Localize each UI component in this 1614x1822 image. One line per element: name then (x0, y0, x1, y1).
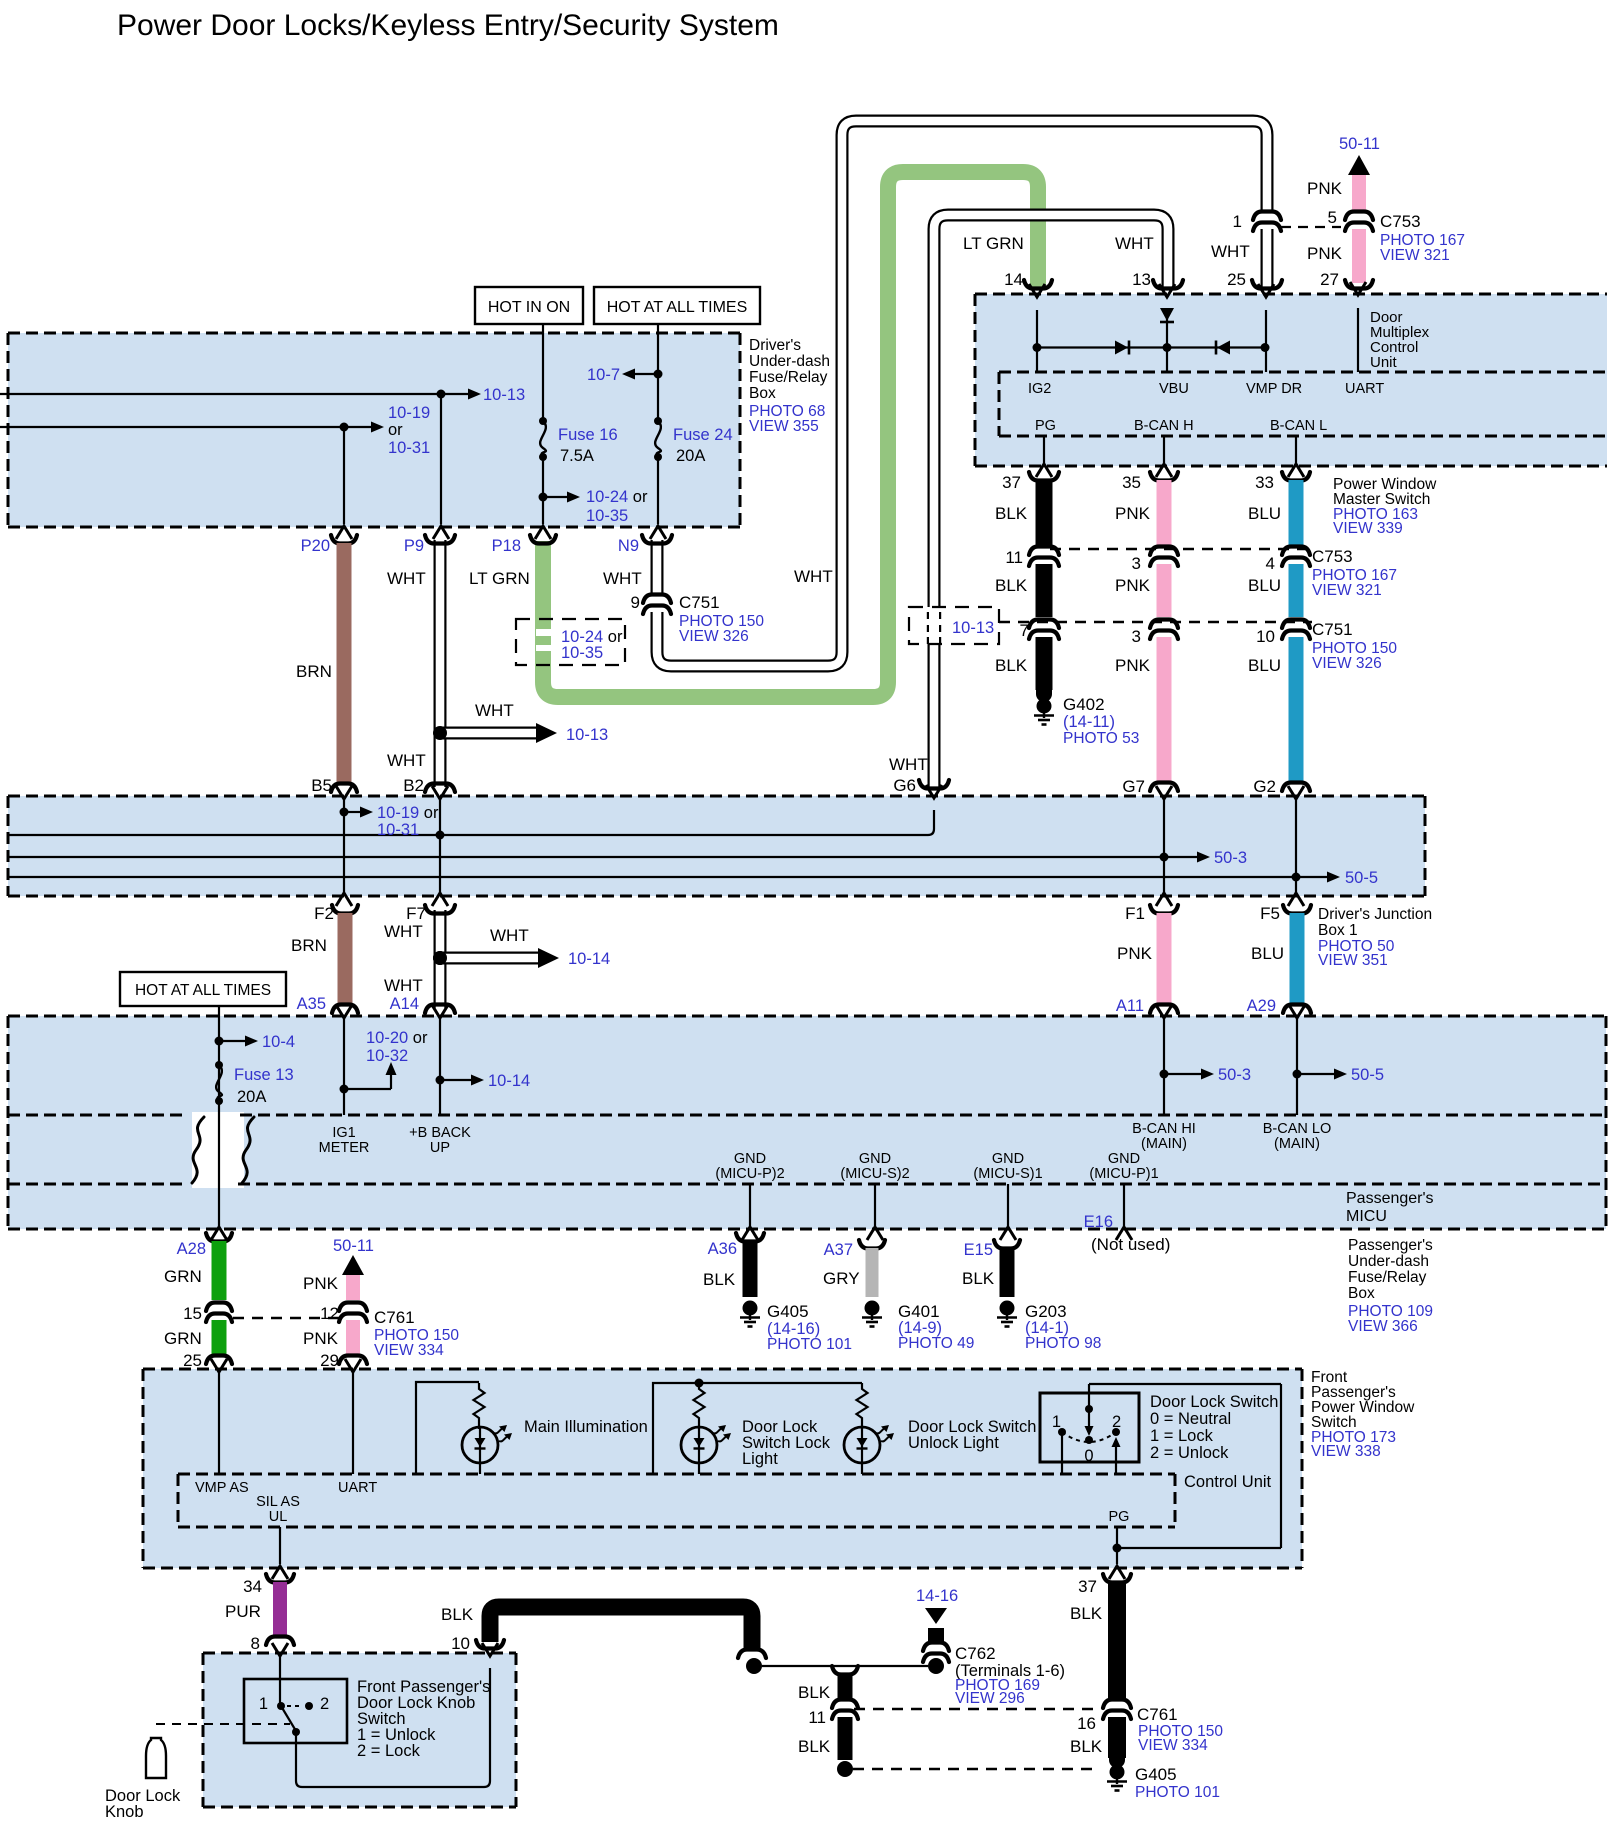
svg-text:34: 34 (243, 1577, 262, 1596)
svg-text:10-14: 10-14 (568, 950, 610, 968)
svg-text:BLU: BLU (1248, 576, 1281, 595)
svg-text:BLU: BLU (1248, 504, 1281, 523)
svg-text:C751: C751 (679, 593, 720, 612)
svg-text:GRN: GRN (164, 1267, 202, 1286)
svg-text:F7: F7 (406, 904, 426, 923)
svg-text:37: 37 (1078, 1577, 1097, 1596)
svg-text:PG: PG (1035, 418, 1056, 434)
svg-text:BLK: BLK (1070, 1737, 1103, 1756)
svg-text:50-11: 50-11 (1339, 135, 1380, 153)
svg-text:Driver's: Driver's (749, 337, 801, 354)
svg-text:2 = Unlock: 2 = Unlock (1150, 1444, 1229, 1462)
svg-text:Control Unit: Control Unit (1184, 1473, 1272, 1491)
svg-text:33: 33 (1255, 473, 1274, 492)
svg-text:Under-dash: Under-dash (749, 353, 830, 370)
svg-text:P9: P9 (404, 537, 424, 555)
svg-text:27: 27 (1320, 270, 1339, 289)
svg-text:10-31: 10-31 (388, 439, 430, 457)
svg-text:IG1: IG1 (332, 1125, 355, 1141)
svg-text:Driver's Junction: Driver's Junction (1318, 906, 1432, 923)
svg-text:HOT AT ALL TIMES: HOT AT ALL TIMES (135, 982, 271, 999)
svg-text:BLK: BLK (962, 1269, 995, 1288)
svg-text:C753: C753 (1312, 547, 1353, 566)
svg-text:14-16: 14-16 (916, 1587, 958, 1605)
svg-text:WHT: WHT (490, 926, 529, 945)
svg-text:PHOTO 49: PHOTO 49 (898, 1335, 974, 1352)
svg-text:Box: Box (1348, 1285, 1375, 1302)
svg-text:Fuse/Relay: Fuse/Relay (749, 369, 828, 386)
svg-text:B-CAN H: B-CAN H (1134, 418, 1194, 434)
svg-text:10-13: 10-13 (952, 619, 994, 637)
svg-text:BLK: BLK (703, 1270, 736, 1289)
svg-text:10-35: 10-35 (561, 644, 603, 662)
svg-text:A37: A37 (824, 1241, 853, 1259)
svg-text:PNK: PNK (1117, 944, 1153, 963)
svg-text:VIEW 338: VIEW 338 (1311, 1443, 1381, 1460)
svg-text:50-5: 50-5 (1345, 869, 1378, 887)
svg-text:VIEW 355: VIEW 355 (749, 418, 819, 435)
svg-text:10: 10 (1256, 627, 1275, 646)
svg-text:BLK: BLK (441, 1605, 474, 1624)
svg-text:WHT: WHT (387, 751, 426, 770)
svg-text:5: 5 (1328, 208, 1337, 227)
svg-text:Door Lock Switch: Door Lock Switch (1150, 1393, 1278, 1411)
svg-text:BLK: BLK (995, 504, 1028, 523)
svg-text:VIEW 339: VIEW 339 (1333, 520, 1403, 537)
svg-text:10-7: 10-7 (587, 366, 620, 384)
svg-text:Fuse/Relay: Fuse/Relay (1348, 1269, 1427, 1286)
svg-text:Passenger's: Passenger's (1348, 1237, 1433, 1254)
svg-text:BLK: BLK (995, 576, 1028, 595)
svg-text:A35: A35 (297, 995, 326, 1013)
svg-text:BLU: BLU (1248, 656, 1281, 675)
svg-text:G7: G7 (1122, 777, 1145, 796)
svg-text:METER: METER (319, 1140, 370, 1156)
svg-text:B-CAN L: B-CAN L (1270, 418, 1327, 434)
svg-text:UART: UART (338, 1480, 377, 1496)
svg-text:Under-dash: Under-dash (1348, 1253, 1429, 1270)
svg-text:WHT: WHT (1115, 234, 1154, 253)
svg-text:VIEW 326: VIEW 326 (1312, 655, 1382, 672)
svg-text:16: 16 (1077, 1714, 1096, 1733)
svg-text:2: 2 (320, 1695, 329, 1713)
svg-text:E15: E15 (964, 1241, 993, 1259)
svg-text:GND: GND (992, 1151, 1024, 1167)
svg-text:UL: UL (269, 1509, 288, 1525)
svg-text:35: 35 (1122, 473, 1141, 492)
svg-text:UART: UART (1345, 381, 1384, 397)
svg-text:8: 8 (251, 1634, 260, 1653)
svg-text:BLK: BLK (798, 1737, 831, 1756)
svg-text:20A: 20A (676, 447, 705, 465)
svg-text:HOT AT ALL TIMES: HOT AT ALL TIMES (607, 299, 748, 316)
svg-text:BRN: BRN (296, 662, 332, 681)
svg-text:PNK: PNK (1115, 656, 1151, 675)
svg-text:0 = Neutral: 0 = Neutral (1150, 1410, 1231, 1428)
svg-text:WHT: WHT (384, 976, 423, 995)
svg-text:WHT: WHT (794, 567, 833, 586)
svg-text:BLU: BLU (1251, 944, 1284, 963)
svg-text:P18: P18 (492, 537, 521, 555)
svg-text:F1: F1 (1125, 904, 1145, 923)
svg-text:+B BACK: +B BACK (409, 1125, 471, 1141)
svg-text:LT GRN: LT GRN (963, 234, 1024, 253)
svg-text:7.5A: 7.5A (560, 447, 594, 465)
svg-text:11: 11 (808, 1708, 826, 1727)
svg-text:VIEW 321: VIEW 321 (1312, 582, 1382, 599)
svg-text:VIEW 321: VIEW 321 (1380, 247, 1450, 264)
svg-text:50-11: 50-11 (333, 1237, 374, 1255)
svg-text:E16: E16 (1084, 1213, 1113, 1231)
svg-text:10-19: 10-19 (388, 404, 430, 422)
svg-text:PNK: PNK (1115, 576, 1151, 595)
svg-text:15: 15 (183, 1304, 202, 1323)
svg-text:3: 3 (1132, 627, 1141, 646)
svg-text:Main Illumination: Main Illumination (524, 1418, 648, 1436)
svg-text:(MICU-S)1: (MICU-S)1 (973, 1166, 1042, 1182)
svg-text:Fuse 24: Fuse 24 (673, 426, 733, 444)
svg-text:Box 1: Box 1 (1318, 922, 1358, 939)
svg-text:GND: GND (1108, 1151, 1140, 1167)
svg-text:GRY: GRY (823, 1269, 860, 1288)
svg-text:B2: B2 (403, 776, 424, 795)
svg-text:12: 12 (320, 1304, 339, 1323)
svg-text:11: 11 (1005, 548, 1023, 567)
svg-text:10-35: 10-35 (586, 507, 628, 525)
svg-text:1: 1 (259, 1695, 268, 1713)
svg-text:PHOTO 98: PHOTO 98 (1025, 1335, 1101, 1352)
svg-text:7: 7 (1020, 621, 1029, 640)
svg-text:10-14: 10-14 (488, 1072, 530, 1090)
svg-text:Light: Light (742, 1450, 778, 1468)
svg-text:MICU: MICU (1346, 1208, 1387, 1225)
svg-text:PUR: PUR (225, 1602, 261, 1621)
svg-text:10-20 or: 10-20 or (366, 1029, 428, 1047)
svg-text:LT GRN: LT GRN (469, 569, 530, 588)
svg-text:C762: C762 (955, 1644, 996, 1663)
svg-text:GRN: GRN (164, 1329, 202, 1348)
svg-text:VIEW 334: VIEW 334 (374, 1342, 444, 1359)
svg-text:BLK: BLK (1070, 1604, 1103, 1623)
svg-text:9: 9 (631, 593, 640, 612)
svg-text:Unlock Light: Unlock Light (908, 1434, 999, 1452)
svg-text:G6: G6 (893, 776, 916, 795)
svg-text:VIEW 351: VIEW 351 (1318, 952, 1388, 969)
svg-text:or: or (388, 421, 403, 439)
svg-text:UP: UP (430, 1140, 450, 1156)
svg-text:29: 29 (320, 1351, 339, 1370)
svg-text:B-CAN HI: B-CAN HI (1132, 1121, 1196, 1137)
svg-text:PG: PG (1109, 1509, 1130, 1525)
svg-text:A29: A29 (1247, 997, 1276, 1015)
svg-text:25: 25 (183, 1351, 202, 1370)
svg-text:PHOTO 101: PHOTO 101 (767, 1336, 852, 1353)
svg-text:N9: N9 (618, 537, 639, 555)
svg-text:G402: G402 (1063, 695, 1105, 714)
svg-text:C761: C761 (374, 1308, 415, 1327)
svg-text:10-32: 10-32 (366, 1047, 408, 1065)
svg-text:(Not used): (Not used) (1091, 1235, 1170, 1254)
svg-text:WHT: WHT (889, 755, 928, 774)
svg-text:10-13: 10-13 (566, 726, 608, 744)
svg-text:A11: A11 (1116, 997, 1144, 1015)
svg-text:50-3: 50-3 (1214, 849, 1247, 867)
svg-text:BLK: BLK (995, 656, 1028, 675)
svg-text:G2: G2 (1253, 777, 1276, 796)
svg-text:VMP DR: VMP DR (1246, 381, 1302, 397)
svg-text:WHT: WHT (475, 701, 514, 720)
svg-text:(MICU-P)1: (MICU-P)1 (1089, 1166, 1158, 1182)
svg-text:VIEW 366: VIEW 366 (1348, 1318, 1418, 1335)
svg-text:VIEW 296: VIEW 296 (955, 1690, 1025, 1707)
svg-text:50-3: 50-3 (1218, 1066, 1251, 1084)
svg-text:13: 13 (1132, 270, 1151, 289)
svg-text:G405: G405 (1135, 1765, 1177, 1784)
svg-text:VBU: VBU (1159, 381, 1189, 397)
svg-text:0: 0 (1084, 1447, 1093, 1465)
svg-text:B5: B5 (311, 776, 332, 795)
svg-text:10: 10 (451, 1634, 470, 1653)
svg-text:WHT: WHT (603, 569, 642, 588)
svg-text:B-CAN LO: B-CAN LO (1263, 1121, 1332, 1137)
svg-text:10-24 or: 10-24 or (586, 488, 648, 506)
svg-text:3: 3 (1132, 554, 1141, 573)
svg-text:C753: C753 (1380, 212, 1421, 231)
svg-text:(MAIN): (MAIN) (1141, 1136, 1187, 1152)
svg-text:C761: C761 (1137, 1705, 1178, 1724)
svg-text:1: 1 (1233, 212, 1242, 231)
svg-text:10-13: 10-13 (483, 386, 525, 404)
svg-text:Fuse 16: Fuse 16 (558, 426, 618, 444)
svg-text:GND: GND (859, 1151, 891, 1167)
svg-text:PNK: PNK (1307, 244, 1343, 263)
svg-text:4: 4 (1266, 554, 1275, 573)
svg-text:2: 2 (1112, 1413, 1121, 1431)
svg-text:IG2: IG2 (1028, 381, 1051, 397)
svg-text:(MICU-P)2: (MICU-P)2 (715, 1166, 784, 1182)
svg-text:PHOTO 53: PHOTO 53 (1063, 730, 1139, 747)
svg-text:(MAIN): (MAIN) (1274, 1136, 1320, 1152)
svg-text:G405: G405 (767, 1302, 809, 1321)
svg-text:1: 1 (1052, 1413, 1061, 1431)
svg-text:C751: C751 (1312, 620, 1353, 639)
svg-text:PNK: PNK (1115, 504, 1151, 523)
svg-text:37: 37 (1002, 473, 1021, 492)
svg-text:PNK: PNK (1307, 179, 1343, 198)
svg-text:10-31: 10-31 (377, 821, 419, 839)
svg-text:Box: Box (749, 385, 776, 402)
svg-text:GND: GND (734, 1151, 766, 1167)
svg-text:VIEW 334: VIEW 334 (1138, 1737, 1208, 1754)
svg-text:Power Door Locks/Keyless Entry: Power Door Locks/Keyless Entry/Security … (117, 9, 779, 42)
svg-text:2 = Lock: 2 = Lock (357, 1742, 421, 1760)
svg-text:P20: P20 (301, 537, 330, 555)
svg-text:F5: F5 (1260, 904, 1280, 923)
svg-text:HOT IN ON: HOT IN ON (488, 299, 570, 316)
svg-text:A28: A28 (177, 1240, 206, 1258)
svg-text:14: 14 (1004, 270, 1023, 289)
svg-text:(14-11): (14-11) (1063, 713, 1115, 731)
svg-text:A36: A36 (708, 1240, 737, 1258)
svg-text:A14: A14 (390, 995, 419, 1013)
svg-text:BLK: BLK (798, 1683, 831, 1702)
svg-text:10-4: 10-4 (262, 1033, 295, 1051)
svg-text:Knob: Knob (105, 1803, 144, 1821)
svg-text:WHT: WHT (1211, 242, 1250, 261)
svg-text:Unit: Unit (1370, 354, 1398, 371)
svg-text:VMP AS: VMP AS (195, 1480, 249, 1496)
svg-text:50-5: 50-5 (1351, 1066, 1384, 1084)
svg-text:20A: 20A (237, 1088, 266, 1106)
svg-text:WHT: WHT (384, 922, 423, 941)
svg-text:PNK: PNK (303, 1274, 339, 1293)
svg-text:WHT: WHT (387, 569, 426, 588)
svg-text:Passenger's: Passenger's (1346, 1190, 1434, 1207)
svg-text:BRN: BRN (291, 936, 327, 955)
svg-text:25: 25 (1227, 270, 1246, 289)
svg-text:VIEW 326: VIEW 326 (679, 628, 749, 645)
svg-text:SIL AS: SIL AS (256, 1494, 300, 1510)
svg-text:PNK: PNK (303, 1329, 339, 1348)
svg-text:Fuse 13: Fuse 13 (234, 1066, 294, 1084)
svg-text:(MICU-S)2: (MICU-S)2 (840, 1166, 909, 1182)
svg-text:1 = Lock: 1 = Lock (1150, 1427, 1214, 1445)
svg-text:10-19 or: 10-19 or (377, 804, 439, 822)
svg-text:PHOTO 101: PHOTO 101 (1135, 1784, 1220, 1801)
